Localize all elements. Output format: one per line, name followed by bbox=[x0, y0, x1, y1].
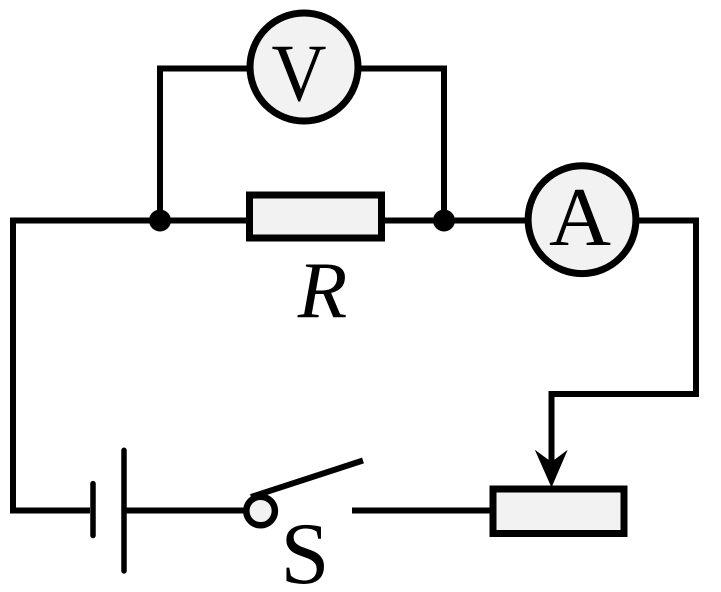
svg-text:R: R bbox=[297, 245, 347, 335]
battery cell tall plate (positive) bbox=[121, 450, 127, 571]
switch S pivot circle bbox=[246, 497, 275, 526]
svg-text:V: V bbox=[272, 28, 327, 119]
node junction dot left bbox=[149, 210, 171, 232]
svg-text:S: S bbox=[281, 506, 330, 592]
resistor R box bbox=[250, 195, 382, 238]
wire resistor to ammeter bbox=[382, 218, 528, 224]
voltmeter V circle bbox=[250, 13, 358, 121]
battery cell short plate (negative) bbox=[90, 484, 96, 536]
wire switch to rheostat bbox=[352, 508, 493, 514]
wire left rail: battery to main top wire to resistor bbox=[13, 221, 249, 511]
rheostat box bbox=[493, 489, 624, 534]
wire battery to switch bbox=[124, 508, 246, 514]
wire ammeter to rheostat wiper arrow bbox=[552, 221, 697, 464]
wire voltmeter branch left bbox=[160, 69, 250, 221]
wire voltmeter branch right bbox=[360, 69, 444, 221]
svg-text:A: A bbox=[549, 171, 611, 264]
node junction dot right bbox=[433, 210, 455, 232]
arrowhead of wiper bbox=[535, 450, 568, 488]
switch S blade bbox=[251, 461, 363, 498]
ammeter A circle bbox=[528, 166, 636, 274]
